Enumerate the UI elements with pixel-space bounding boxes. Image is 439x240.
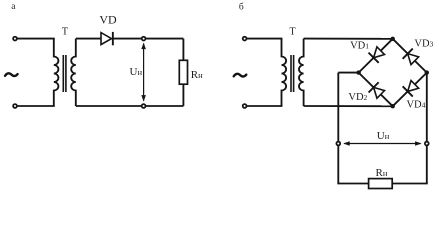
svg-text:Uн: Uн <box>129 66 142 78</box>
svg-text:Uн: Uн <box>377 130 390 142</box>
svg-text:VD: VD <box>99 13 117 27</box>
svg-text:VD4: VD4 <box>406 99 425 110</box>
svg-text:VD1: VD1 <box>350 41 369 52</box>
svg-text:VD3: VD3 <box>414 39 433 50</box>
svg-text:Rн: Rн <box>191 69 203 81</box>
svg-text:Rн: Rн <box>376 167 388 179</box>
svg-text:б: б <box>239 2 244 13</box>
svg-text:T: T <box>290 27 296 38</box>
svg-text:T: T <box>62 27 68 38</box>
svg-text:VD2: VD2 <box>348 92 367 103</box>
